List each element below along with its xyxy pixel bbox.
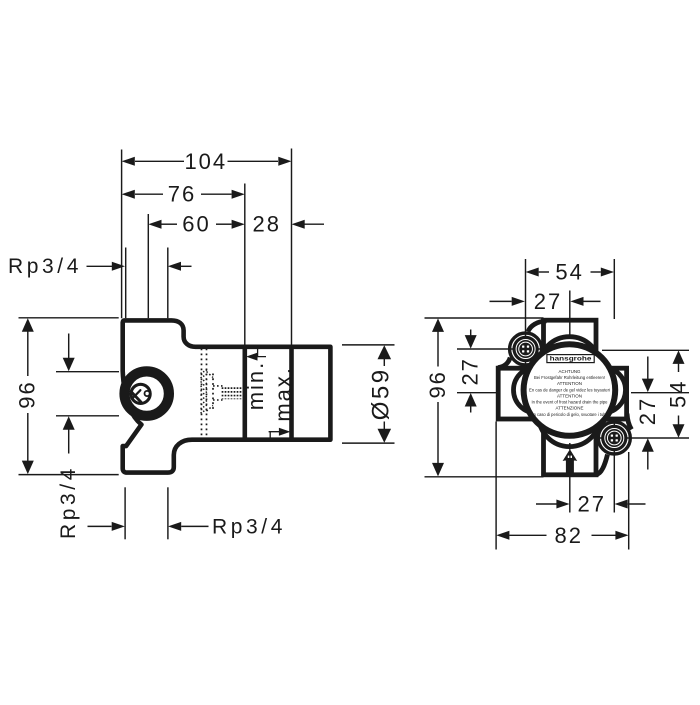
dim diameter 59	[383, 359, 385, 366]
left view: min arrow	[250, 356, 267, 358]
dim 82	[509, 534, 546, 536]
svg-text:54: 54	[666, 380, 691, 408]
svg-text:Rp3/4: Rp3/4	[212, 516, 286, 539]
svg-text:82: 82	[555, 523, 583, 548]
svg-text:In the event of frost hazard d: In the event of frost hazard drain the p…	[532, 400, 609, 405]
horizontal centerline right	[631, 392, 689, 394]
left view: drain screw pivot	[145, 391, 150, 396]
svg-text:96: 96	[15, 380, 40, 408]
right view: NW boss fillet to vertical arm	[528, 321, 547, 332]
Rp3/4 bottom arrows	[88, 525, 112, 527]
dim 76 extension line right	[244, 184, 246, 347]
left view: side port Rp3/4 ring	[125, 371, 169, 415]
svg-text:min.: min.	[243, 361, 268, 411]
left view: drain screw lever	[131, 391, 141, 402]
svg-text:Ø59: Ø59	[367, 367, 394, 420]
left view: max plane line	[289, 347, 294, 440]
left view: max arrow	[269, 431, 287, 433]
vertical centerline top	[569, 291, 571, 338]
right view: main circle	[524, 344, 616, 436]
dim 96 extension lines	[19, 317, 119, 319]
left view: drain screw circle inside port	[131, 384, 150, 403]
svg-text:54: 54	[555, 260, 583, 285]
right view: horizontal arm rectangle	[498, 368, 626, 419]
left view: min plane line	[243, 347, 248, 440]
vertical centerline bottom	[569, 443, 571, 450]
dim 60	[162, 223, 178, 225]
dim 104	[135, 160, 184, 162]
svg-text:Rp3/4: Rp3/4	[8, 255, 82, 278]
NW port vertical centerline	[525, 259, 527, 368]
port bore vertical arrows	[68, 334, 70, 359]
dim 76	[135, 193, 163, 195]
right view: right bump	[580, 367, 626, 413]
right view: hansgrohe label box	[547, 355, 594, 363]
right view: bottom bump	[539, 385, 601, 447]
svg-text:76: 76	[168, 182, 196, 207]
left view: valve body side-view outline with flange	[123, 320, 331, 472]
dim 96 right view	[437, 332, 439, 367]
right view: SE boss fillet to vertical arm	[596, 455, 608, 475]
left view: hidden spindle and thread (dotted)	[201, 349, 203, 439]
svg-text:En cas de danger de gel videz: En cas de danger de gel videz les tuyaut…	[529, 387, 610, 392]
right view: vertical arm rectangle	[544, 320, 597, 475]
dim 54 top	[539, 271, 549, 273]
svg-text:ATTENTION: ATTENTION	[557, 393, 582, 398]
right view: frost warning text	[529, 369, 610, 417]
svg-text:27: 27	[534, 289, 562, 314]
right view: left bump	[514, 367, 560, 413]
svg-text:104: 104	[184, 149, 227, 174]
dim 54 right	[678, 364, 680, 372]
svg-text:27: 27	[458, 357, 483, 385]
svg-text:Rp3/4: Rp3/4	[57, 465, 80, 539]
dim 54 right extension lines	[602, 349, 689, 351]
svg-text:max.: max.	[271, 366, 296, 422]
right view: SE port screw	[601, 425, 627, 451]
Rp3/4 bottom extension lines	[124, 487, 126, 539]
dim 27 right	[647, 357, 649, 379]
port bore vertical extension lines	[56, 371, 119, 373]
dim 96 right-view extension lines	[425, 317, 544, 319]
svg-text:27: 27	[578, 492, 606, 517]
dim 104 extension line right	[291, 149, 293, 347]
dim 82 extension lines	[495, 422, 497, 550]
dim 59 extension lines	[342, 344, 395, 346]
dim 60 extension line left	[147, 214, 149, 318]
NW port horizontal centerline	[457, 348, 543, 350]
svg-text:ATTENTION: ATTENTION	[557, 381, 582, 386]
SE port horizontal centerline	[599, 437, 689, 439]
svg-text:In caso di pericolo di gelo, s: In caso di pericolo di gelo, svuotare i …	[533, 412, 607, 417]
right view: NW boss fillet to horizontal arm	[498, 358, 510, 368]
horizontal centerline left	[457, 392, 496, 394]
dim 96	[27, 332, 29, 377]
svg-text:ATTENZIONE: ATTENZIONE	[556, 406, 584, 411]
dim 27 left	[470, 330, 472, 336]
svg-text:ACHTUNG: ACHTUNG	[559, 369, 582, 374]
svg-text:28: 28	[253, 212, 281, 237]
dim 27 top	[490, 300, 512, 302]
right view: top bump	[539, 337, 601, 399]
right view: SE boss fillet to horizontal arm	[627, 414, 632, 430]
right view: NW port screw	[512, 336, 538, 362]
svg-text:96: 96	[425, 370, 450, 398]
right view: SE port boss	[598, 422, 630, 454]
Rp3/4 port bore extension lines	[125, 248, 127, 319]
svg-text:60: 60	[182, 212, 210, 237]
Rp3/4 top leader arrows	[87, 265, 113, 267]
dim 104 extension line left	[121, 150, 123, 319]
right view: flow direction arrow	[563, 449, 578, 475]
right view: NW port boss	[510, 333, 542, 365]
svg-text:hansgrohe: hansgrohe	[550, 355, 592, 362]
dim 27 bottom	[536, 503, 557, 505]
svg-text:27: 27	[635, 397, 660, 425]
svg-text:Bei Frostgefahr Rohrleitung en: Bei Frostgefahr Rohrleitung entleeren!	[534, 375, 605, 380]
SE port vertical centerline	[613, 259, 615, 319]
